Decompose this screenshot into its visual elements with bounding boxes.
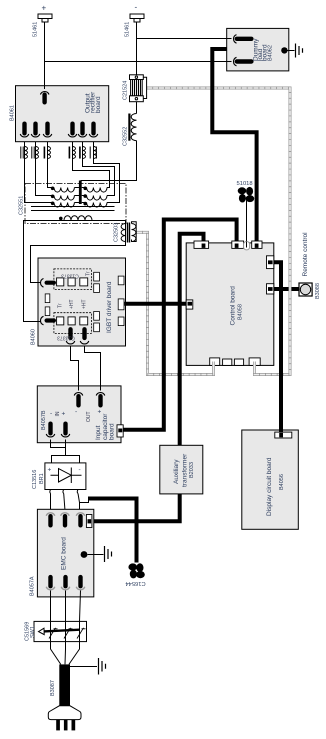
svg-text:SW1: SW1 bbox=[30, 626, 36, 638]
svg-text:OUT: OUT bbox=[86, 411, 92, 422]
wire bridge AC3 to EMC board bbox=[78, 494, 80, 510]
svg-text:51461: 51461 bbox=[125, 22, 131, 37]
svg-text:-: - bbox=[50, 410, 52, 417]
mains cable B3087 bbox=[59, 664, 70, 705]
wire shunt to inductor C32552 bbox=[136, 102, 138, 114]
choke L3 under diode 3 bbox=[44, 147, 50, 159]
svg-text:B4056: B4056 bbox=[279, 474, 285, 490]
output rectifier board B4061 bbox=[16, 86, 109, 142]
svg-text:51018: 51018 bbox=[237, 181, 253, 187]
svg-text:C32551: C32551 bbox=[19, 196, 25, 215]
terminal 51461 minus bbox=[130, 14, 144, 22]
wire EMC earth dot to ground bbox=[88, 554, 104, 556]
svg-text:C32552: C32552 bbox=[123, 127, 129, 146]
svg-text:B4058: B4058 bbox=[238, 304, 244, 320]
wire bridge AC1 to EMC board bbox=[50, 494, 52, 510]
control board left connector bbox=[186, 300, 193, 309]
wire rectifier diode 6 to transformer right row3 bbox=[94, 142, 120, 203]
choke L1 under diode 1 bbox=[21, 147, 28, 159]
svg-text:Control board: Control board bbox=[230, 286, 237, 326]
svg-text:IGBT driver board: IGBT driver board bbox=[106, 281, 113, 333]
wire CT right winding loop bbox=[132, 222, 137, 242]
fan C16544 bbox=[128, 563, 144, 578]
EMC board bottom terminals bbox=[46, 575, 85, 590]
svg-text:B4061: B4061 bbox=[10, 105, 16, 121]
output inductor bbox=[60, 216, 93, 221]
capacitor board OUT terminals bbox=[74, 393, 105, 408]
IGBT board left edge connectors bbox=[45, 294, 50, 316]
connector nubs bbox=[188, 244, 273, 306]
inductor C32552 bbox=[129, 114, 136, 141]
svg-text:board: board bbox=[109, 423, 116, 440]
wire + terminal to output rectifier top diode bbox=[44, 22, 46, 90]
svg-text:+HT: +HT bbox=[69, 299, 75, 309]
wire thick control board to display circuit board bbox=[270, 262, 281, 436]
svg-text:Tr: Tr bbox=[58, 303, 64, 308]
svg-text:B2033: B2033 bbox=[189, 462, 195, 478]
display circuit board B4056 bbox=[242, 430, 298, 529]
gray cable over remote wire crossing bbox=[289, 283, 292, 296]
wire inductor C32552 to transformer centre tap bbox=[81, 141, 137, 181]
choke L5 under diode 5 bbox=[80, 147, 86, 159]
wire transformer core lamination lines bbox=[31, 207, 115, 211]
wire thick capacitor board to control board connector 2 bbox=[121, 220, 237, 430]
svg-text:-: - bbox=[79, 467, 81, 474]
shunt C21524 bbox=[130, 75, 147, 102]
capacitor board right connector bbox=[117, 425, 123, 437]
wire IGBT lower leg to capacitor OUT- bbox=[71, 346, 79, 391]
wire fan 51018 to control board bbox=[246, 201, 248, 248]
svg-text:board: board bbox=[95, 96, 102, 113]
gray cable ends in bottom connectors bbox=[214, 362, 255, 374]
wire dummy load dot to ground bbox=[284, 50, 294, 52]
transformer winding row stubs to core bbox=[74, 188, 86, 203]
EMC board B4057A bbox=[37, 509, 93, 597]
IGBT bottom terminals bbox=[66, 327, 89, 344]
switch SW1 internals bbox=[39, 628, 86, 639]
transformer right winding row3 bbox=[84, 202, 107, 207]
svg-text:B4057B: B4057B bbox=[41, 410, 47, 430]
svg-text:Remote control: Remote control bbox=[302, 232, 309, 277]
control board top connector 3 bbox=[252, 241, 262, 248]
control board fan slot bbox=[244, 242, 250, 250]
control board right connector lower bbox=[267, 284, 274, 294]
bridge rectifier internals bbox=[50, 468, 82, 494]
wire CT C32503 sense cable to control board connector bbox=[136, 232, 213, 374]
svg-text:B3087: B3087 bbox=[50, 680, 56, 696]
dummy load earth dot bbox=[281, 47, 287, 53]
wire capacitor IN- to bridge bbox=[51, 440, 66, 448]
choke L4 under diode 4 bbox=[69, 147, 75, 159]
svg-text:C21524: C21524 bbox=[123, 81, 129, 100]
svg-text:C13373: C13373 bbox=[61, 273, 79, 279]
fan 51018 bbox=[238, 187, 255, 203]
wire rectifier diode 1 to transformer row3 bbox=[25, 142, 53, 203]
ground at mains cable bbox=[99, 658, 106, 675]
output rectifier board top diode bbox=[40, 92, 49, 105]
display board top connector bbox=[275, 432, 292, 438]
svg-text:C13516: C13516 bbox=[32, 470, 38, 489]
IGBT module upper C13373 bbox=[41, 269, 92, 290]
svg-text:IN: IN bbox=[55, 411, 61, 416]
svg-text:Tr: Tr bbox=[86, 271, 92, 276]
svg-text:Auxiliary: Auxiliary bbox=[173, 459, 180, 484]
svg-text:-: - bbox=[75, 409, 77, 416]
ground at dummy load board bbox=[296, 44, 303, 58]
wire bridge AC2 to EMC board bbox=[64, 494, 65, 510]
wire rectifier diode 3 to transformer row1 bbox=[48, 142, 53, 188]
wire output line A through inductor to IGBT lower terminal bbox=[24, 221, 126, 322]
wire + rail to dummy load lower diode bbox=[45, 61, 232, 63]
output rectifier board bottom diodes bbox=[20, 122, 98, 137]
wire IGBT lower leg to capacitor OUT+ bbox=[85, 346, 101, 391]
svg-text:B4062: B4062 bbox=[268, 45, 274, 61]
wire EMC board to switch L2 bbox=[64, 591, 67, 665]
remote control connector B3088 bbox=[299, 283, 312, 296]
transformer left winding row1 bbox=[51, 187, 74, 192]
fan wire end in slot bbox=[246, 242, 248, 248]
wire EMC board to switch L3 bbox=[69, 591, 81, 665]
wire EMC board to switch L1 bbox=[51, 591, 61, 665]
label output rectifier board bbox=[85, 91, 102, 113]
wire - rail to dummy load upper diode bbox=[137, 38, 232, 40]
svg-text:+: + bbox=[48, 467, 52, 474]
transformer right winding row1 bbox=[84, 187, 107, 192]
wire bridge plus crossover bbox=[52, 456, 66, 463]
IGBT driver board B4060 bbox=[38, 258, 126, 346]
svg-text:Display circuit board: Display circuit board bbox=[266, 457, 273, 516]
svg-text:+: + bbox=[62, 411, 66, 418]
IGBT module lower C13373 bbox=[41, 313, 92, 334]
input capacitor board B4057B bbox=[37, 386, 121, 443]
EMC board right connector bbox=[86, 515, 92, 528]
transformer right winding row2 bbox=[84, 195, 107, 200]
svg-text:+HT: +HT bbox=[82, 299, 88, 309]
wire rectifier diode 2 to transformer row2 bbox=[36, 142, 53, 196]
wire fan C16544 tap stub bbox=[80, 499, 89, 503]
control board top connector 2 bbox=[232, 241, 244, 248]
wire thick EMC tap to fan C16544 bbox=[88, 499, 137, 563]
svg-text:B4057A: B4057A bbox=[30, 576, 36, 596]
IGBT board right edge connectors bbox=[94, 272, 124, 331]
mains switch C51569 SW1 bbox=[34, 621, 87, 641]
svg-text:BR1: BR1 bbox=[39, 473, 45, 484]
svg-text:-: - bbox=[135, 3, 138, 12]
svg-text:B4060: B4060 bbox=[31, 329, 37, 345]
wire rectifier diode 5 to transformer right row2 bbox=[83, 142, 115, 196]
auxiliary transformer B2033 bbox=[160, 445, 203, 494]
wire thick W3 via auxiliary transformer (under box) bbox=[91, 234, 204, 522]
gray cables group bbox=[136, 88, 290, 375]
ground at EMC board bbox=[105, 546, 112, 562]
choke L2 under diode 2 bbox=[32, 147, 39, 159]
wire output line B through CT to IGBT upper terminal bbox=[31, 221, 126, 283]
transformer C32551 core bbox=[79, 181, 82, 205]
wire capacitor IN+ to bridge minus bbox=[66, 440, 80, 463]
svg-text:C16544: C16544 bbox=[125, 580, 146, 586]
wire shunt sense cable to control board connector bbox=[147, 88, 291, 375]
control board B4058 bbox=[186, 243, 274, 366]
svg-text:+: + bbox=[98, 409, 102, 416]
transformer left winding row2 bbox=[51, 195, 74, 200]
control board bottom connectors bbox=[210, 358, 261, 366]
capacitor board IN terminals bbox=[46, 422, 70, 437]
wire thick control board to remote control connector bbox=[270, 287, 299, 291]
svg-text:51461: 51461 bbox=[33, 22, 39, 37]
wire thick IGBT driver board to control board left connector bbox=[124, 302, 190, 306]
EMC board earth dot bbox=[81, 551, 88, 558]
transformer C32551 dash-dot enclosure bbox=[25, 184, 126, 224]
wire - terminal down to shunt C21524 bbox=[136, 22, 138, 75]
EMC board top terminals bbox=[46, 513, 85, 528]
label dummy load board bbox=[253, 38, 269, 61]
bridge rectifier C13516 BR1 bbox=[45, 463, 86, 490]
terminal 51461 plus bbox=[38, 14, 52, 22]
wire thick dummy load to control board connector 3 bbox=[212, 49, 256, 246]
wire rectifier diode 4 to transformer right row1 bbox=[73, 142, 110, 188]
boards bbox=[16, 28, 299, 596]
svg-text:B3088: B3088 bbox=[315, 283, 321, 299]
transformer left winding row3 bbox=[51, 202, 74, 207]
svg-text:+: + bbox=[42, 4, 47, 13]
svg-text:C13373: C13373 bbox=[57, 335, 75, 341]
mains plug bbox=[48, 706, 81, 731]
control board right connector upper bbox=[267, 256, 274, 269]
svg-text:transformer: transformer bbox=[182, 453, 189, 487]
dummy load board diodes bbox=[234, 35, 288, 66]
current transformer C32503 bbox=[121, 223, 136, 243]
wire mains cable earth bbox=[70, 666, 97, 668]
control board top connector 1 bbox=[194, 241, 209, 248]
dummy load board B4062 bbox=[227, 28, 289, 71]
label input capacitor board bbox=[95, 413, 116, 440]
choke L6 under diode 6 bbox=[90, 147, 96, 159]
label auxiliary transformer bbox=[173, 453, 189, 487]
svg-text:C32503: C32503 bbox=[114, 223, 120, 242]
svg-text:EMC board: EMC board bbox=[61, 537, 68, 570]
